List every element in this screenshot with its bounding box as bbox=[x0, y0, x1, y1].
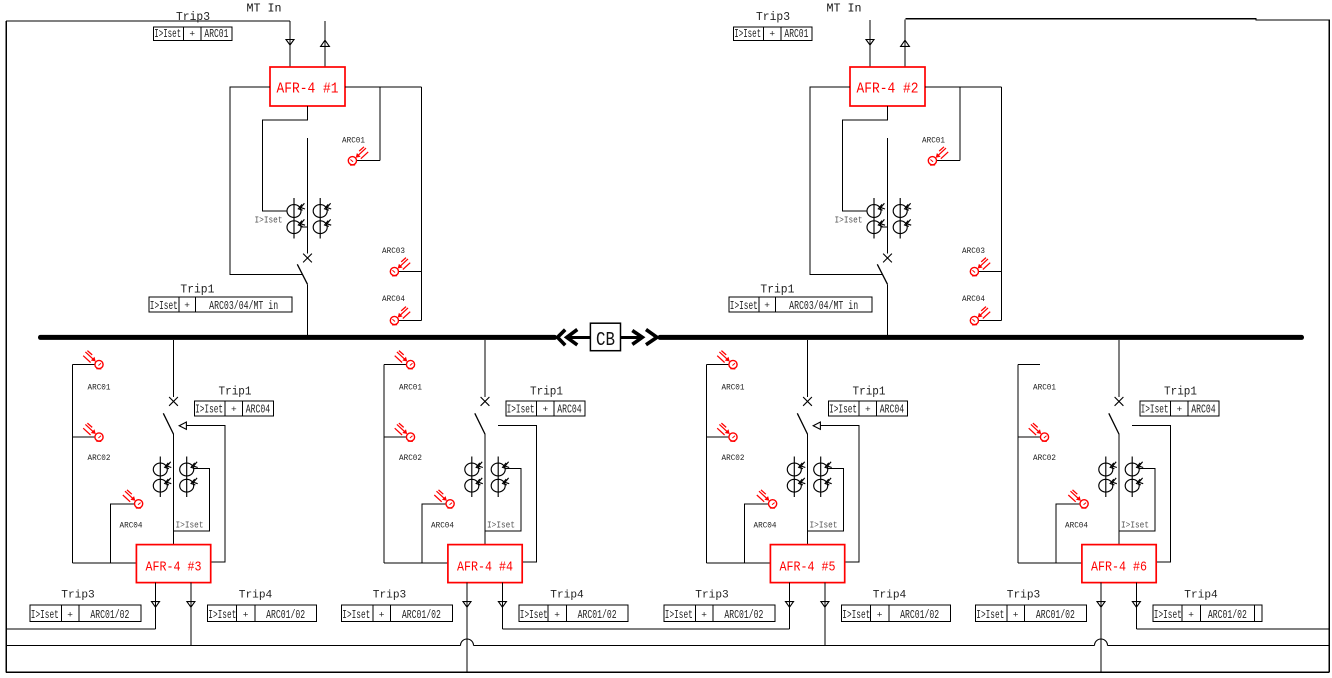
svg-text:ARC04: ARC04 bbox=[246, 404, 271, 417]
svg-text:Trip3: Trip3 bbox=[756, 10, 790, 24]
svg-text:ARC01/02: ARC01/02 bbox=[900, 609, 939, 622]
svg-text:ARC01: ARC01 bbox=[1033, 383, 1056, 393]
svg-text:ARC04: ARC04 bbox=[382, 294, 405, 304]
svg-text:+: + bbox=[701, 610, 707, 621]
svg-text:I>Iset: I>Iset bbox=[1154, 609, 1182, 622]
svg-text:AFR-4 #6: AFR-4 #6 bbox=[1091, 559, 1147, 575]
svg-text:ARC04: ARC04 bbox=[1065, 520, 1088, 530]
svg-text:ARC01: ARC01 bbox=[722, 383, 745, 393]
svg-text:ARC01/02: ARC01/02 bbox=[90, 609, 129, 622]
svg-text:I>Iset: I>Iset bbox=[31, 609, 59, 622]
svg-text:ARC04: ARC04 bbox=[962, 294, 985, 304]
svg-text:Trip3: Trip3 bbox=[61, 590, 95, 602]
svg-text:Trip3: Trip3 bbox=[1007, 590, 1041, 602]
svg-text:ARC02: ARC02 bbox=[1033, 453, 1056, 463]
svg-text:I>Iset: I>Iset bbox=[520, 609, 548, 622]
svg-text:I>Iset: I>Iset bbox=[730, 300, 758, 313]
svg-text:AFR-4 #2: AFR-4 #2 bbox=[857, 82, 919, 98]
svg-text:I>Iset: I>Iset bbox=[829, 404, 857, 417]
svg-text:I>Iset: I>Iset bbox=[487, 521, 515, 531]
svg-text:AFR-4 #4: AFR-4 #4 bbox=[457, 559, 513, 575]
svg-text:AFR-4 #5: AFR-4 #5 bbox=[780, 559, 836, 575]
svg-text:+: + bbox=[243, 610, 249, 621]
svg-text:ARC01: ARC01 bbox=[399, 383, 422, 393]
svg-text:MT In: MT In bbox=[247, 2, 282, 16]
svg-text:+: + bbox=[764, 300, 770, 311]
svg-text:ARC01: ARC01 bbox=[784, 28, 808, 41]
svg-text:I>Iset: I>Iset bbox=[342, 609, 370, 622]
svg-text:+: + bbox=[877, 610, 883, 621]
svg-text:Trip1: Trip1 bbox=[219, 386, 252, 399]
svg-text:ARC01: ARC01 bbox=[88, 383, 111, 393]
svg-text:ARC02: ARC02 bbox=[399, 453, 422, 463]
svg-text:ARC03: ARC03 bbox=[382, 246, 405, 256]
svg-text:ARC02: ARC02 bbox=[88, 453, 111, 463]
svg-text:I>Iset: I>Iset bbox=[734, 28, 761, 41]
svg-text:ARC04: ARC04 bbox=[754, 520, 777, 530]
svg-text:AFR-4 #3: AFR-4 #3 bbox=[146, 559, 202, 575]
svg-text:Trip4: Trip4 bbox=[239, 590, 273, 602]
svg-text:+: + bbox=[231, 404, 237, 415]
svg-text:I>Iset: I>Iset bbox=[810, 521, 838, 531]
svg-text:+: + bbox=[554, 610, 560, 621]
svg-text:ARC01: ARC01 bbox=[342, 135, 365, 145]
svg-text:I>Iset: I>Iset bbox=[842, 609, 870, 622]
svg-text:Trip1: Trip1 bbox=[1164, 386, 1197, 399]
svg-text:Trip1: Trip1 bbox=[760, 283, 794, 297]
svg-text:CB: CB bbox=[596, 329, 615, 351]
svg-text:ARC04: ARC04 bbox=[880, 404, 905, 417]
svg-text:ARC03: ARC03 bbox=[962, 246, 985, 256]
svg-text:ARC03/04/MT in: ARC03/04/MT in bbox=[209, 300, 278, 313]
svg-text:I>Iset: I>Iset bbox=[1141, 404, 1169, 417]
svg-text:ARC01/02: ARC01/02 bbox=[1036, 609, 1075, 622]
svg-text:MT In: MT In bbox=[827, 2, 862, 16]
svg-text:Trip1: Trip1 bbox=[853, 386, 886, 399]
svg-text:I>Iset: I>Iset bbox=[176, 521, 204, 531]
svg-text:I>Iset: I>Iset bbox=[154, 28, 181, 41]
svg-text:I>Iset: I>Iset bbox=[507, 404, 535, 417]
svg-text:Trip3: Trip3 bbox=[176, 10, 210, 24]
svg-text:I>Iset: I>Iset bbox=[665, 609, 693, 622]
svg-text:+: + bbox=[67, 610, 73, 621]
svg-text:ARC04: ARC04 bbox=[120, 520, 143, 530]
svg-text:ARC04: ARC04 bbox=[1191, 404, 1216, 417]
svg-text:I>Iset: I>Iset bbox=[208, 609, 236, 622]
svg-text:+: + bbox=[1013, 610, 1019, 621]
svg-text:+: + bbox=[189, 29, 195, 40]
svg-text:I>Iset: I>Iset bbox=[150, 300, 178, 313]
svg-text:I>Iset: I>Iset bbox=[1121, 521, 1149, 531]
svg-text:ARC01/02: ARC01/02 bbox=[724, 609, 763, 622]
svg-text:+: + bbox=[769, 29, 775, 40]
svg-text:ARC04: ARC04 bbox=[431, 520, 454, 530]
svg-text:I>Iset: I>Iset bbox=[835, 215, 863, 225]
svg-text:ARC01/02: ARC01/02 bbox=[578, 609, 617, 622]
svg-text:ARC01: ARC01 bbox=[922, 135, 945, 145]
svg-text:+: + bbox=[1188, 610, 1194, 621]
svg-text:ARC01/02: ARC01/02 bbox=[1208, 609, 1247, 622]
svg-text:ARC04: ARC04 bbox=[557, 404, 582, 417]
svg-text:I>Iset: I>Iset bbox=[255, 215, 283, 225]
svg-text:AFR-4 #1: AFR-4 #1 bbox=[277, 82, 339, 98]
svg-text:Trip4: Trip4 bbox=[873, 590, 907, 602]
svg-text:Trip1: Trip1 bbox=[530, 386, 563, 399]
svg-text:Trip4: Trip4 bbox=[550, 590, 584, 602]
svg-text:ARC03/04/MT in: ARC03/04/MT in bbox=[789, 300, 858, 313]
svg-text:Trip1: Trip1 bbox=[180, 283, 214, 297]
svg-text:+: + bbox=[865, 404, 871, 415]
svg-text:I>Iset: I>Iset bbox=[195, 404, 223, 417]
svg-text:Trip3: Trip3 bbox=[695, 590, 729, 602]
svg-text:+: + bbox=[184, 300, 190, 311]
svg-text:ARC01/02: ARC01/02 bbox=[266, 609, 305, 622]
svg-text:Trip4: Trip4 bbox=[1184, 590, 1218, 602]
svg-text:ARC01/02: ARC01/02 bbox=[402, 609, 441, 622]
svg-text:Trip3: Trip3 bbox=[373, 590, 407, 602]
svg-text:ARC02: ARC02 bbox=[722, 453, 745, 463]
svg-text:+: + bbox=[1176, 404, 1182, 415]
svg-text:I>Iset: I>Iset bbox=[976, 609, 1004, 622]
svg-text:ARC01: ARC01 bbox=[204, 28, 228, 41]
svg-text:+: + bbox=[542, 404, 548, 415]
svg-text:+: + bbox=[379, 610, 385, 621]
